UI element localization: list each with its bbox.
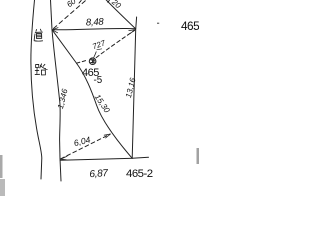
arrowhead at diagonal end of 6.04 bbox=[104, 134, 110, 138]
scanner smudge bottom left bbox=[0, 179, 5, 196]
svg-text:465: 465 bbox=[181, 19, 199, 33]
svg-text:6,87: 6,87 bbox=[89, 168, 109, 180]
dashed tie from diagonal bend through station circle to V2 (7.27 line) bbox=[77, 60, 87, 63]
line from off-sheet apex down to V2 (x.20 line) bbox=[105, 0, 135, 29]
dashed survey tie line from V1 to off-sheet point (6.0x) bbox=[54, 0, 89, 29]
svg-text:6,04: 6,04 bbox=[73, 134, 92, 148]
svg-text:60: 60 bbox=[65, 0, 78, 9]
svg-text:465-2: 465-2 bbox=[126, 168, 153, 180]
parcel south boundary V4-V3 (6.87) with overshoot right of V3 bbox=[60, 157, 148, 160]
parcel east boundary V2-V3 (13.16), slight overshoot above V2 bbox=[132, 17, 136, 158]
arrowhead at V2 (dashed tie) bbox=[129, 30, 136, 34]
tick above-right of circle bbox=[94, 52, 97, 58]
parcel west boundary V1-V4 (road frontage, 13.46) bbox=[52, 30, 61, 181]
small dash under 727 bbox=[97, 49, 102, 50]
diagonal V1-V3 (15.30), slightly bowed bbox=[52, 30, 132, 159]
cut stroke of first digit of x20 bbox=[107, 0, 109, 2]
scanner smudge left edge bbox=[0, 155, 3, 178]
road left edge bbox=[31, 0, 42, 179]
arrowhead at V4 end of 6.04 bbox=[61, 156, 68, 160]
survey station circle bbox=[89, 58, 96, 65]
station circle inner mark bbox=[91, 59, 95, 63]
svg-text:20: 20 bbox=[109, 0, 123, 11]
svg-text:8,48: 8,48 bbox=[86, 17, 105, 29]
road right edge upper (to V1) bbox=[51, 0, 53, 30]
svg-text:13,16: 13,16 bbox=[124, 77, 138, 99]
kanji 道 (road) drawn as strokes bbox=[34, 29, 43, 41]
cut stroke of third digit of 60x bbox=[79, 0, 82, 3]
dashed partial dimension from V4 to point on diagonal (6.04) bbox=[61, 134, 110, 159]
small mark left of top-right 465 bbox=[157, 23, 159, 24]
svg-text:1,346: 1,346 bbox=[56, 88, 70, 110]
arrowhead at V1 on north boundary bbox=[52, 28, 58, 33]
small dash right of 路 bbox=[45, 68, 48, 70]
scanner smudge right edge bbox=[197, 148, 200, 164]
kanji 路 (road) drawn as strokes bbox=[35, 64, 46, 75]
svg-text:-5: -5 bbox=[94, 75, 103, 86]
parcel north boundary V1-V2 (8.48 line) bbox=[52, 28, 136, 29]
svg-text:15,30: 15,30 bbox=[93, 93, 112, 115]
